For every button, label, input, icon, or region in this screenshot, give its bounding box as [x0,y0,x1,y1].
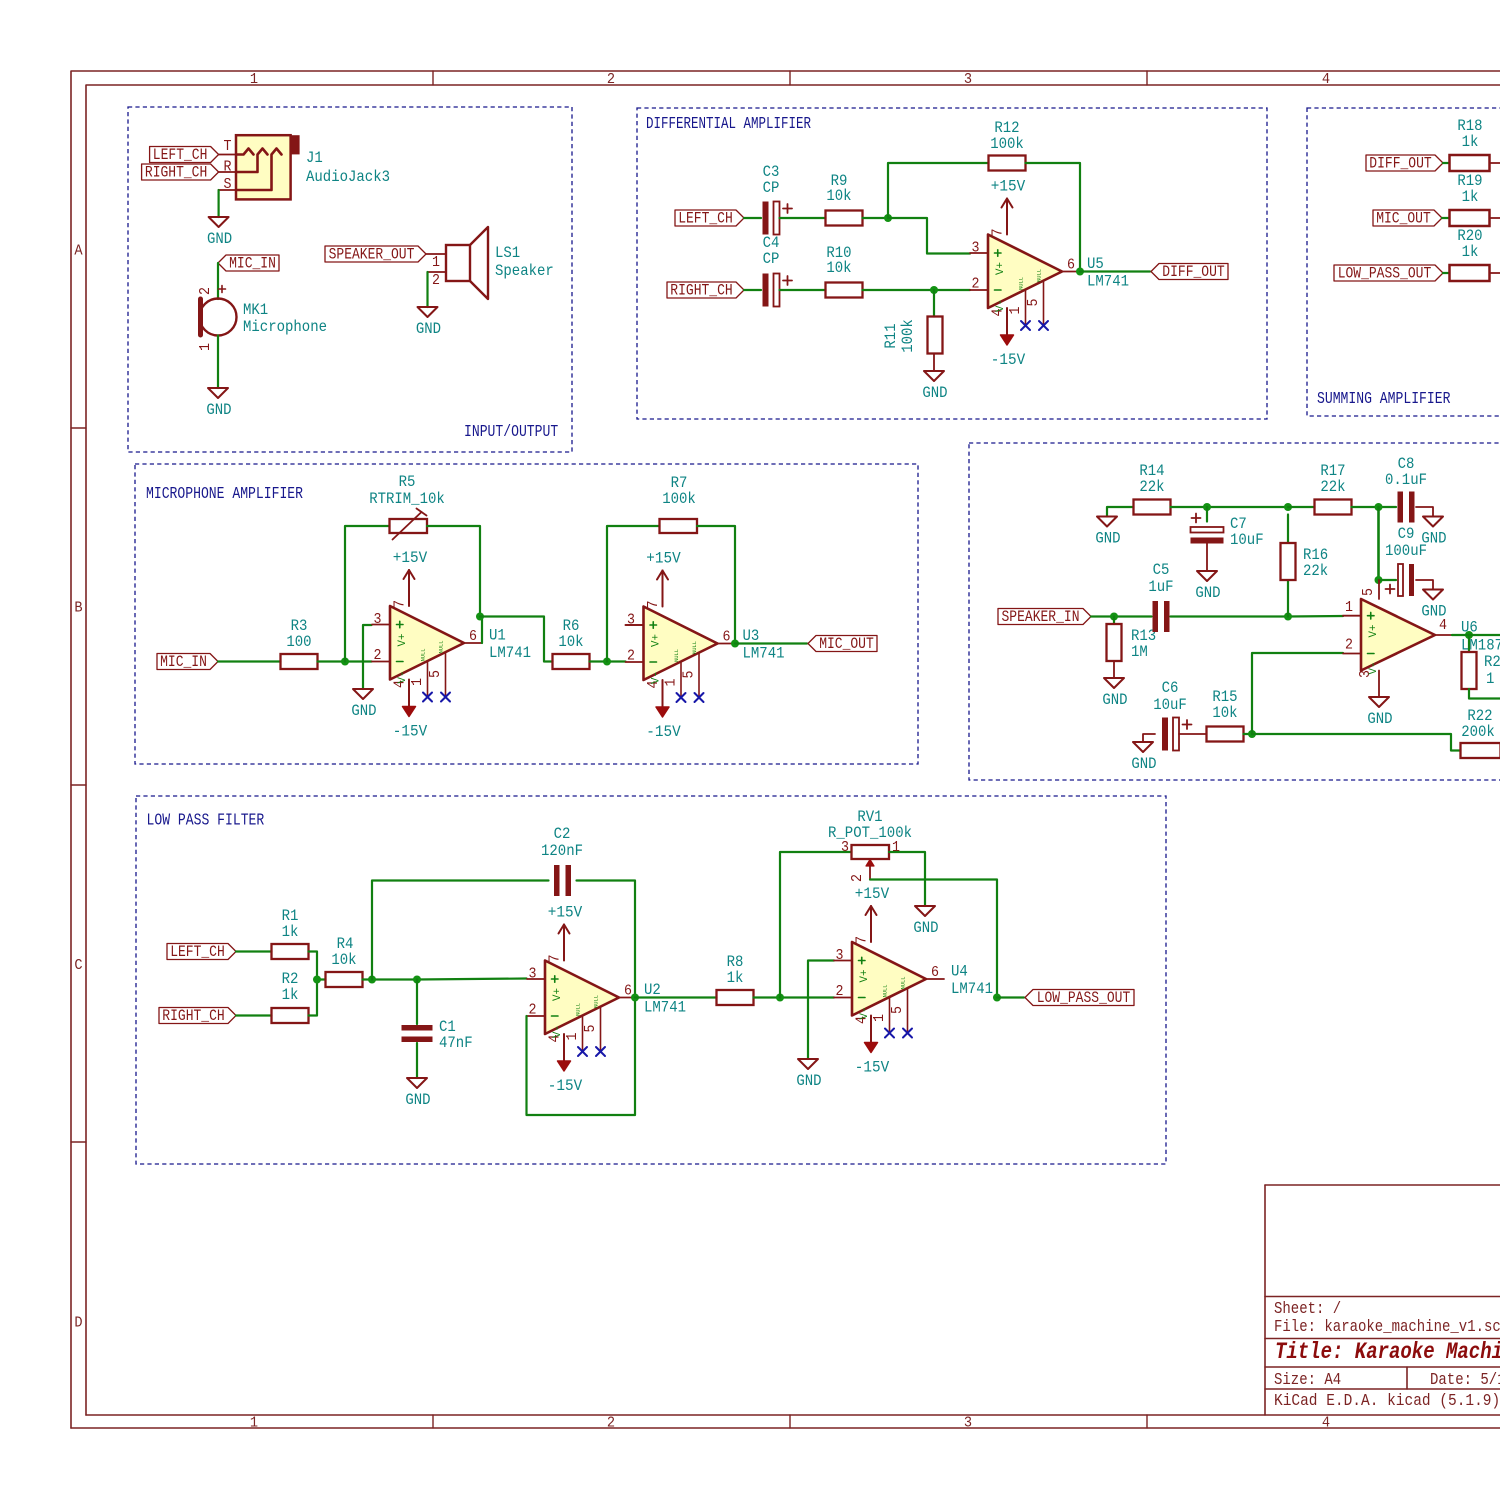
svg-text:1: 1 [197,343,214,351]
wire feedback to R22 [1252,734,1461,751]
junction R16 bottom [1284,613,1292,621]
svg-text:File: karaoke_machine_v1.sch: File: karaoke_machine_v1.sch [1274,1317,1500,1336]
junction U2 output [631,994,639,1002]
svg-text:NULL: NULL [900,977,907,990]
svg-text:Microphone: Microphone [243,318,327,336]
svg-text:S: S [224,176,232,193]
wire SPEAKER_IN to C5 [1091,615,1152,617]
speaker LS1 [428,227,554,299]
microphone MK1 [197,286,327,352]
wire C9 to ground [1416,580,1433,590]
wire U4 pin 3 to ground [808,961,834,1060]
capacitor C2 120nF [554,865,571,896]
wire LEFT_CH to R1 [236,950,272,952]
svg-text:-15V: -15V [855,1059,890,1077]
svg-text:B: B [74,600,82,617]
section box INPUT/OUTPUT [128,107,572,452]
junction C8 / pin 5 rail [1375,503,1383,511]
hierarchical label SPEAKER_OUT [325,246,426,264]
svg-text:NULL: NULL [673,649,680,662]
svg-text:3: 3 [836,947,844,964]
wire speaker pin 2 to ground [426,272,428,307]
svg-text:1k: 1k [282,986,299,1004]
wire feedback up to R5 left [345,526,390,662]
op-amp U1 LM741 [372,600,531,697]
wire down to C1 [416,980,418,1025]
svg-text:V-: V- [552,1025,564,1038]
ground under speaker [416,307,441,338]
svg-text:J1: J1 [306,149,323,167]
hierarchical label DIFF_OUT (diff amp) [1151,263,1228,281]
svg-text:MIC_OUT: MIC_OUT [819,635,874,653]
svg-text:1: 1 [250,1415,258,1432]
svg-text:MICROPHONE AMPLIFIER: MICROPHONE AMPLIFIER [146,484,303,503]
svg-text:V-: V- [995,299,1007,312]
svg-text:V-: V- [397,671,409,684]
section box SUMMING AMPLIFIER [1307,108,1500,416]
svg-text:6: 6 [624,983,632,1000]
svg-text:DIFF_OUT: DIFF_OUT [1369,155,1431,173]
svg-text:V-: V- [859,1007,871,1020]
svg-text:2: 2 [197,287,214,295]
svg-text:R21: R21 [1484,653,1500,671]
power flag -15V at U4 pin 4 [855,1016,890,1077]
svg-text:LOW_PASS_OUT: LOW_PASS_OUT [1037,989,1131,1007]
svg-text:1: 1 [1345,599,1353,616]
svg-text:100k: 100k [899,319,917,353]
wire R16 column [1287,515,1289,617]
svg-text:7: 7 [645,601,662,609]
svg-text:5: 5 [427,670,444,678]
svg-text:GND: GND [1131,755,1156,773]
op-amp U6 LM1875 [1343,580,1500,697]
resistor R2 1k [272,970,309,1023]
ground under R11 [922,371,947,402]
frame column labels [250,71,1330,1432]
svg-text:10k: 10k [331,951,356,969]
junction R10 / R11 [930,286,938,294]
ground right of C9 [1421,590,1446,621]
svg-text:U4: U4 [951,963,968,981]
svg-text:GND: GND [207,230,232,248]
wire MIC_OUT to R19 [1442,217,1450,219]
svg-text:200k: 200k [1461,723,1495,741]
svg-text:-15V: -15V [548,1077,583,1095]
wire to C9 [1379,579,1397,581]
wire R12 right down to output [1026,163,1081,272]
svg-text:1uF: 1uF [1148,578,1173,596]
ground C6 left [1143,734,1155,742]
svg-text:-15V: -15V [991,351,1026,369]
resistor R21 1 [1462,652,1500,689]
no-connect U4 pin 1 [885,1029,894,1038]
op-amp U2 LM741 [527,955,686,1052]
wire up to RV1 pin 3 [780,852,852,998]
wire down to C7 [1206,507,1208,522]
svg-text:V+: V+ [1368,625,1380,638]
potentiometer RV1 R_POT_100k [828,808,912,882]
capacitor C3 CP [763,202,793,235]
wire R5 right down to junction [427,526,480,617]
hierarchical label DIFF_OUT (summing) [1366,155,1443,173]
svg-text:7: 7 [854,936,871,944]
svg-text:MIC_IN: MIC_IN [229,255,276,273]
wire node up to R12 left [888,163,988,218]
ground at U1 pin 3 [351,689,376,720]
junction U5 output [1076,268,1084,276]
hierarchical label MIC_IN (input/output) [218,255,279,273]
junction C9 tap [1375,576,1383,584]
wire U4 output to LOW_PASS_OUT [997,996,1024,998]
hierarchical label LEFT_CH (LPF) [167,943,236,961]
svg-text:3: 3 [529,966,537,983]
svg-text:10uF: 10uF [1153,696,1187,714]
svg-text:MIC_OUT: MIC_OUT [1376,210,1431,228]
wire R8 to U4 pin 2 [754,996,835,998]
svg-text:D: D [74,1315,82,1332]
svg-text:5: 5 [1360,588,1377,596]
resistor R8 1k [717,953,754,1005]
svg-text:SUMMING AMPLIFIER: SUMMING AMPLIFIER [1317,389,1451,408]
svg-text:U1: U1 [489,627,506,645]
svg-text:Size: A4: Size: A4 [1274,1370,1341,1389]
resistor R20 1k [1450,227,1490,281]
svg-text:6: 6 [931,964,939,981]
wire R20 right [1490,272,1500,274]
svg-text:RIGHT_CH: RIGHT_CH [145,164,207,182]
svg-text:2: 2 [529,1002,537,1019]
svg-text:NULL: NULL [438,641,445,654]
resistor R10 10k [826,244,863,298]
capacitor C4 CP [763,274,793,307]
op-amp U5 LM741 [970,229,1129,326]
svg-text:2: 2 [849,874,866,882]
svg-text:22k: 22k [1303,562,1328,580]
svg-text:U2: U2 [644,981,661,999]
resistor R15 10k [1207,688,1244,742]
svg-text:1: 1 [1486,670,1494,688]
svg-text:1k: 1k [282,923,299,941]
resistor R6 10k [553,617,590,669]
resistor R13 1M [1107,624,1157,661]
svg-text:+15V: +15V [393,549,428,567]
svg-text:2: 2 [374,647,382,664]
wire RIGHT_CH to R2 [236,1014,272,1016]
svg-text:V+: V+ [651,634,663,647]
ground under R13 [1102,678,1127,709]
wire U3 output to MIC_OUT [735,642,807,644]
trimmer resistor R5 RTRIM_10k [369,473,445,540]
wire RV1 pin 1 to ground [889,852,925,906]
wire DIFF_OUT to R18 [1443,162,1450,164]
J1 pin names T R S [224,138,232,193]
resistor R1 1k [272,907,309,959]
svg-text:120nF: 120nF [541,842,583,860]
power flag -15V at U1 pin 4 [393,680,428,741]
power flag -15V at U3 pin 4 [646,680,681,741]
no-connect U2 pin 1 [578,1047,587,1056]
power flag +15V at U5 pin 7 [991,178,1026,235]
wire R17 to C8 [1352,506,1397,508]
svg-text:GND: GND [913,919,938,937]
svg-text:CP: CP [763,179,780,197]
svg-text:V+: V+ [552,988,564,1001]
wire R15 to node [1244,733,1253,735]
svg-text:NULL: NULL [1018,277,1025,290]
svg-text:10k: 10k [558,633,583,651]
svg-text:LEFT_CH: LEFT_CH [170,943,225,961]
svg-text:2: 2 [1345,637,1353,654]
wire feedback up to R7 [607,526,660,662]
svg-text:1k: 1k [1462,243,1479,261]
hierarchical label MIC_IN (mic amp) [157,653,218,671]
svg-text:LS1: LS1 [495,244,520,262]
svg-text:LEFT_CH: LEFT_CH [153,146,208,164]
svg-text:GND: GND [351,702,376,720]
no-connect U5 pin 1 [1021,321,1030,330]
wire microphone to ground [217,336,219,389]
svg-text:RTRIM_10k: RTRIM_10k [369,490,445,508]
svg-text:INPUT/OUTPUT: INPUT/OUTPUT [464,422,558,441]
svg-text:3: 3 [627,612,635,629]
audio jack J1 AudioJack3 [236,135,300,199]
svg-text:1k: 1k [727,969,744,987]
svg-text:1: 1 [564,1033,581,1041]
svg-text:GND: GND [922,384,947,402]
wire RIGHT_CH to C4 [744,289,761,291]
wire U1 output up [481,617,483,644]
junction U1 output / feedback [476,613,484,621]
svg-text:AudioJack3: AudioJack3 [306,168,390,186]
svg-text:V+: V+ [859,970,871,983]
svg-text:2: 2 [836,983,844,1000]
frame row labels [74,243,82,1332]
wire LOW_PASS_OUT to R20 [1443,272,1450,274]
U3 pin 3 stub (unconnected) [626,624,644,626]
svg-text:LM741: LM741 [644,999,686,1017]
resistor R4 10k [326,935,363,987]
junction U3 output [731,640,739,648]
svg-text:-15V: -15V [393,723,428,741]
svg-text:47nF: 47nF [439,1034,473,1052]
svg-text:100k: 100k [990,135,1024,153]
svg-text:5: 5 [582,1025,599,1033]
svg-text:4: 4 [1322,1415,1330,1432]
hierarchical label LOW_PASS_OUT (summing) [1334,265,1443,283]
no-connect U4 pin 5 [903,1029,912,1038]
svg-text:C: C [74,957,82,974]
frame column ticks [433,71,1147,1428]
junction R6 / R7 feedback [603,658,611,666]
svg-text:DIFFERENTIAL AMPLIFIER: DIFFERENTIAL AMPLIFIER [646,114,811,133]
wire U6 output right [1452,634,1500,636]
svg-text:C2: C2 [554,825,571,843]
capacitor C6 10uF [1162,718,1192,751]
ground under microphone [206,388,231,419]
wire C7 to ground [1206,544,1208,572]
wire rail down to U6 pin 5 [1377,507,1380,580]
wire R21 to right [1469,689,1500,699]
wire C1 to ground [416,1043,418,1078]
resistor R17 22k [1315,462,1352,515]
svg-text:NULL: NULL [691,641,698,654]
no-connect U2 pin 5 [596,1047,605,1056]
op-amp U3 LM741 [626,601,785,698]
svg-text:V-: V- [1368,662,1380,675]
wire R9 to node [863,217,889,219]
resistor R7 100k [660,474,698,533]
wire C4 to R10 [780,289,826,291]
wire U2 output to R8 [635,996,717,998]
svg-text:3: 3 [964,1415,972,1432]
svg-text:Sheet: /: Sheet: / [1274,1299,1341,1318]
frame row ticks [71,428,86,1142]
svg-text:100k: 100k [662,490,696,508]
svg-text:LOW_PASS_OUT: LOW_PASS_OUT [1338,265,1432,283]
svg-text:GND: GND [206,401,231,419]
svg-text:GND: GND [416,320,441,338]
ground at RV1 pin 1 [913,906,938,937]
ground right of C8 [1421,517,1446,548]
junction R8 / RV1 [776,994,784,1002]
hierarchical label MIC_OUT (mic amp) [808,635,877,653]
svg-text:6: 6 [469,628,477,645]
wire U1 pin 3 to ground [363,625,372,689]
svg-text:CP: CP [763,250,780,268]
power flag -15V at U2 pin 4 [548,1034,583,1095]
resistor R9 10k [826,172,863,226]
svg-text:2: 2 [432,272,440,289]
hierarchical label RIGHT_CH (LPF) [159,1007,236,1025]
wire C2 right down to U2 output [577,881,636,998]
svg-text:1: 1 [432,254,440,271]
wire R7 right down to U3 output [697,526,735,644]
wire to R17 [1288,506,1315,508]
svg-text:GND: GND [796,1072,821,1090]
ground left of R14 [1095,517,1120,548]
ground under C7 [1195,571,1220,602]
svg-text:1k: 1k [1462,133,1479,151]
resistor R3 100 [281,617,318,669]
svg-text:GND: GND [405,1091,430,1109]
svg-text:2: 2 [607,1415,615,1432]
no-connect U5 pin 5 [1039,321,1048,330]
svg-text:R5: R5 [399,473,416,491]
section box MICROPHONE AMPLIFIER [135,464,918,764]
svg-text:5: 5 [681,671,698,679]
svg-text:2: 2 [627,648,635,665]
wire MIC_IN to microphone [217,263,219,299]
wire SPEAKER_OUT to speaker pin 1 [426,253,446,255]
svg-text:6: 6 [723,629,731,646]
svg-text:LM741: LM741 [743,645,785,663]
svg-text:C5: C5 [1153,561,1170,579]
junction U4 output / RV1 wiper [993,994,1001,1002]
svg-text:2: 2 [972,276,980,293]
hierarchical label RIGHT_CH (diff amp) [667,282,744,300]
junction C1 tap [413,976,421,984]
wire R4 to U2 pin 3 [363,979,527,980]
wire R14 to R17 row [1171,506,1289,508]
junction U6 output [1465,631,1473,639]
svg-text:LEFT_CH: LEFT_CH [678,210,733,228]
power flag +15V at U4 pin 7 [855,885,890,942]
wire R10 to U5 pin 2 [863,289,971,291]
svg-text:3: 3 [972,240,980,257]
capacitor C9 100uF [1386,564,1415,596]
resistor R18 1k [1450,117,1490,171]
svg-text:C9: C9 [1398,525,1415,543]
wire R14 left to ground [1107,507,1134,517]
svg-text:A: A [74,243,82,260]
wire U5 output to DIFF_OUT [1080,270,1150,272]
svg-text:U5: U5 [1087,255,1104,273]
svg-text:1: 1 [409,678,426,686]
wire C5 to U6 pin 1 [1171,615,1344,618]
power flag +15V at U2 pin 7 [548,904,583,961]
svg-text:1: 1 [663,679,680,687]
svg-text:1: 1 [250,71,258,88]
resistor R11 100k [882,317,943,354]
title block outline [1265,1185,1500,1415]
svg-text:GND: GND [1102,691,1127,709]
svg-text:100: 100 [286,633,311,651]
svg-text:LM741: LM741 [489,644,531,662]
svg-text:5: 5 [1025,299,1042,307]
wire node to U5 pin 3 [888,218,970,254]
svg-text:GND: GND [1367,710,1392,728]
svg-text:7: 7 [392,600,409,608]
wire R3 to U1 pin 2 [318,660,372,662]
svg-text:Speaker: Speaker [495,262,554,280]
no-connect U1 pin 1 [423,693,432,702]
resistor R14 22k [1134,462,1171,515]
junction R16 top [1284,503,1292,511]
svg-text:1: 1 [871,1014,888,1022]
section box LOW PASS FILTER [136,796,1166,1164]
svg-text:DIFF_OUT: DIFF_OUT [1162,263,1224,281]
svg-text:+15V: +15V [646,550,681,568]
svg-text:LOW PASS FILTER: LOW PASS FILTER [147,811,265,830]
wire R11 to ground [933,354,935,372]
hierarchical label RIGHT_CH [142,164,219,182]
ground at U6 pin 3 [1367,697,1392,728]
svg-text:R_POT_100k: R_POT_100k [828,824,912,842]
svg-text:5: 5 [889,1006,906,1014]
wire R18 right [1490,162,1500,164]
ground under J1 [207,217,232,248]
svg-text:4: 4 [1439,617,1447,634]
svg-text:3: 3 [964,71,972,88]
svg-text:-15V: -15V [646,723,681,741]
svg-text:V-: V- [651,671,663,684]
svg-text:NULL: NULL [420,649,427,662]
svg-text:NULL: NULL [575,1003,582,1016]
ground left of C6 [1131,742,1156,773]
wire R13 to ground [1113,661,1115,678]
svg-text:+15V: +15V [548,904,583,922]
svg-text:7: 7 [547,955,564,963]
J1 pin stubs [219,155,236,191]
wire down to R21 [1468,635,1470,652]
svg-text:V+: V+ [397,634,409,647]
svg-text:RIGHT_CH: RIGHT_CH [670,282,732,300]
resistor R22 200k [1461,707,1500,758]
wire LEFT_CH to C3 [744,217,761,219]
wire C8 to ground [1416,507,1433,517]
svg-text:1: 1 [1007,307,1024,315]
wire down to R13 [1113,617,1115,625]
